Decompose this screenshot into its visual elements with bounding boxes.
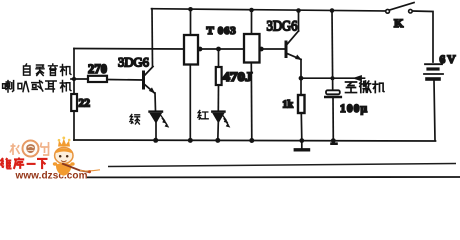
svg-text:6V: 6V <box>440 54 457 66</box>
svg-text:K: K <box>394 16 404 30</box>
svg-text:270: 270 <box>88 62 107 76</box>
svg-text:100μ: 100μ <box>340 103 367 115</box>
node input junction <box>72 77 76 81</box>
node R1k at bottom bus <box>299 138 304 143</box>
text green (lv) <box>130 114 140 124</box>
node T063 left output <box>198 47 203 52</box>
transistor Q1 3DG6 <box>144 67 155 94</box>
node LED red at bus <box>215 138 220 143</box>
stray mark below capacitor node <box>332 142 337 145</box>
node capacitor at top bus <box>330 8 335 13</box>
node T063 right at bottom bus <box>249 138 254 143</box>
watermark <box>1 137 100 182</box>
text input label line1 (zi lu yin ji) <box>24 64 71 76</box>
red brand strokes <box>1 158 48 170</box>
wire Q1 emitter down to LED green <box>154 93 157 111</box>
wire bottom ground bus <box>74 140 436 141</box>
bottom page rule <box>108 164 456 167</box>
node T063 right at top bus <box>249 8 254 13</box>
LED green D1 <box>150 112 169 128</box>
node capacitor at bottom bus <box>331 138 336 143</box>
wire T063 right top to bus <box>251 10 253 34</box>
wire input to R270 <box>71 78 88 80</box>
wire T063 left to T063 right <box>198 48 244 50</box>
wire T063 left bottom to bus <box>189 65 191 141</box>
wire T063 left top to bus <box>190 9 192 35</box>
text red (hong) <box>198 110 208 119</box>
wire R270 to Q1 base <box>107 79 143 82</box>
node T063 right output <box>259 47 264 52</box>
wire Q1 collector up to top bus <box>151 9 154 67</box>
node capacitor tap <box>331 76 335 80</box>
node T063 left at top bus <box>188 7 193 12</box>
wire capacitor bottom to bus <box>332 97 334 140</box>
text to microcomputer (zhi wei ji) <box>346 81 384 93</box>
svg-text:1k: 1k <box>283 100 294 111</box>
svg-text:3DG6: 3DG6 <box>118 55 149 70</box>
transistor Q2 3DG6 <box>286 31 301 60</box>
resistor R270 <box>88 76 107 82</box>
arrow to microcomputer (points left) <box>354 76 362 81</box>
svg-text:3DG6: 3DG6 <box>267 19 298 35</box>
wire output to arrow <box>301 77 365 79</box>
node R470J tap <box>216 47 221 52</box>
wire T063 right bottom to bus <box>250 63 253 141</box>
wire R470J to LED red <box>217 85 219 111</box>
resistor R22 <box>71 94 77 111</box>
svg-text:T 063: T 063 <box>207 25 237 37</box>
wire R1k to bottom bus <box>300 113 303 140</box>
LED red D2 <box>212 112 230 128</box>
wire capacitor top to bus <box>331 10 334 90</box>
T063 right element <box>244 34 260 63</box>
wire input top horizontal to T063 left <box>74 48 184 51</box>
wire battery bottom to bottom bus <box>434 81 435 141</box>
mascot <box>53 137 100 176</box>
wire input vertical top section <box>73 49 75 95</box>
node T063 left at bottom bus <box>188 138 193 143</box>
wire Q2 emitter down to R1k <box>300 60 302 96</box>
text input label line2 (la ba huo er ji) <box>3 81 71 93</box>
resistor R470J <box>216 67 222 85</box>
node LED green at bus <box>153 138 158 143</box>
svg-text:22: 22 <box>79 98 91 110</box>
switch K <box>386 3 414 14</box>
bottom edge rule <box>87 176 460 178</box>
battery B1 6V <box>424 64 443 79</box>
wire LED green to bottom bus <box>155 123 157 140</box>
svg-text:www.dzsc.com: www.dzsc.com <box>15 171 88 179</box>
node Q2 emitter output junction <box>299 76 304 81</box>
wire LED red to bottom bus <box>217 123 220 141</box>
wire switch to right corner <box>413 11 434 62</box>
svg-text:470J: 470J <box>223 69 254 84</box>
T063 left element <box>184 35 198 65</box>
wire T063 right to Q2 base <box>260 48 286 50</box>
node Q2 collector at bus <box>296 8 301 13</box>
wire top supply bus <box>152 9 387 11</box>
wire tap down to R470J <box>218 49 220 67</box>
wire Q2 collector to top bus <box>298 10 300 31</box>
capacitor C1 100u electrolytic <box>325 90 341 97</box>
resistor R1k <box>298 95 305 113</box>
wire input vertical below R22 <box>73 111 75 140</box>
ground <box>295 141 308 150</box>
